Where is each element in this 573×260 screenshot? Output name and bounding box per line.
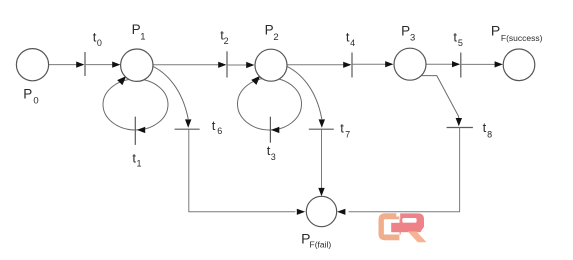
label P3 xyxy=(401,23,415,43)
svg-text:F(fail): F(fail) xyxy=(310,240,332,250)
svg-text:1: 1 xyxy=(140,31,145,42)
svg-text:2: 2 xyxy=(273,32,278,43)
label PFfail xyxy=(301,230,331,249)
transition t5 xyxy=(460,53,462,78)
transition t6 xyxy=(175,128,200,130)
label P0 xyxy=(23,86,38,106)
svg-text:t: t xyxy=(483,120,487,135)
label P1 xyxy=(132,22,146,42)
place PFfail xyxy=(306,196,336,226)
wire P1 to t2 xyxy=(152,62,226,68)
svg-text:P: P xyxy=(401,23,410,38)
svg-text:t: t xyxy=(340,120,344,135)
wire P1 to t6 xyxy=(150,65,192,128)
svg-text:7: 7 xyxy=(345,129,350,139)
wire P3 to t5 xyxy=(425,61,461,67)
place PFsuccess xyxy=(503,49,535,81)
transition t2 xyxy=(226,51,228,77)
svg-text:P: P xyxy=(491,22,500,38)
wire t7 to PFfail xyxy=(318,129,324,196)
wire t2 to P2 xyxy=(227,62,254,68)
place P1 xyxy=(121,49,153,81)
label t1 xyxy=(132,150,141,168)
label PFsuccess xyxy=(491,22,543,43)
wire self-loop P2 t3 xyxy=(238,76,302,133)
svg-text:8: 8 xyxy=(487,130,492,140)
label t8 xyxy=(483,120,493,140)
svg-text:t: t xyxy=(453,30,457,45)
wire t6 to PFfail xyxy=(189,129,305,215)
svg-text:P: P xyxy=(265,23,274,38)
label t3 xyxy=(267,143,276,162)
svg-text:5: 5 xyxy=(458,38,463,48)
svg-text:2: 2 xyxy=(224,36,229,46)
label t6 xyxy=(212,118,223,136)
wire t5 to PFsuccess xyxy=(461,61,503,67)
svg-text:3: 3 xyxy=(410,33,415,44)
label t0 xyxy=(93,30,102,49)
svg-text:P: P xyxy=(23,86,32,101)
label t2 xyxy=(220,27,228,46)
transition t8 xyxy=(447,127,473,129)
wire P2 to t7 xyxy=(284,65,326,128)
svg-text:4: 4 xyxy=(350,38,355,48)
place P3 xyxy=(394,48,426,80)
transition t3 xyxy=(269,117,271,143)
svg-text:P: P xyxy=(132,22,141,37)
svg-text:0: 0 xyxy=(33,95,38,106)
svg-text:F(success): F(success) xyxy=(501,33,543,43)
place P0 xyxy=(16,49,48,81)
place P2 xyxy=(255,49,287,81)
label t4 xyxy=(346,30,355,48)
svg-text:0: 0 xyxy=(97,38,102,48)
wire t4 to P3 xyxy=(352,61,393,67)
wire t0 to P1 xyxy=(85,62,120,68)
label P2 xyxy=(265,23,279,43)
CR watermark logo xyxy=(379,213,427,242)
transition t7 xyxy=(309,128,334,130)
svg-text:t: t xyxy=(212,118,216,133)
transition t4 xyxy=(351,53,353,78)
wire P3 to t8 xyxy=(420,76,462,127)
wire P0 to t0 xyxy=(49,62,85,68)
transition t1 xyxy=(134,117,136,145)
label t7 xyxy=(340,120,350,139)
wire t8 to PFfail xyxy=(337,128,460,215)
wire self-loop P1 t1 xyxy=(103,76,168,133)
label t5 xyxy=(453,30,463,49)
wire P2 to t4 xyxy=(286,62,351,68)
svg-text:6: 6 xyxy=(217,126,222,136)
svg-text:1: 1 xyxy=(137,159,142,169)
transition t0 xyxy=(84,52,86,76)
svg-text:3: 3 xyxy=(271,152,276,162)
